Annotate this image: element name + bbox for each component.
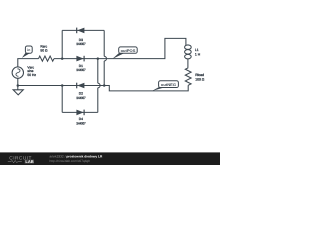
svg-text:outPOS: outPOS bbox=[121, 49, 136, 53]
svg-text:outNEG: outNEG bbox=[161, 83, 176, 87]
svg-text:1N4007: 1N4007 bbox=[76, 68, 86, 72]
svg-text:100 Ω: 100 Ω bbox=[195, 77, 205, 81]
svg-text:50 Hz: 50 Hz bbox=[27, 73, 36, 77]
svg-text:artek3332 / prostownik diodowy: artek3332 / prostownik diodowy LR bbox=[50, 154, 103, 158]
svg-text:1N4007: 1N4007 bbox=[76, 42, 86, 46]
svg-text:1N4007: 1N4007 bbox=[76, 121, 86, 125]
svg-text:50 Ω: 50 Ω bbox=[40, 49, 48, 53]
svg-text:in: in bbox=[27, 48, 30, 52]
svg-text:1 H: 1 H bbox=[195, 52, 201, 56]
svg-text:http://circuitlab.com/c67q4gh: http://circuitlab.com/c67q4gh bbox=[50, 159, 91, 163]
svg-text:1N4007: 1N4007 bbox=[76, 96, 86, 100]
svg-text:LAB: LAB bbox=[25, 159, 33, 164]
